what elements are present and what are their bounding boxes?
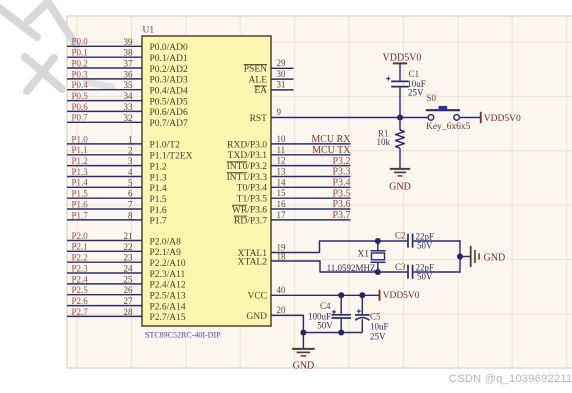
wire net P2.3 / pin 24	[67, 272, 142, 274]
svg-text:38: 38	[124, 48, 134, 58]
svg-text:P1.6: P1.6	[150, 206, 167, 216]
wire net P3.7 / pin 17	[271, 219, 351, 221]
svg-text:P1.7: P1.7	[150, 217, 167, 227]
svg-text:P0.7/AD7: P0.7/AD7	[150, 119, 189, 129]
svg-text:P0.3: P0.3	[72, 69, 89, 79]
svg-text:9: 9	[277, 107, 282, 117]
svg-text:6: 6	[128, 189, 133, 199]
switch S0 key	[428, 115, 434, 121]
wire net P0.4 / pin 35	[67, 89, 142, 91]
wire net P2.4 / pin 25	[67, 283, 142, 285]
wire C5 to bottom rail	[361, 319, 363, 332]
svg-text:WR/P3.6: WR/P3.6	[232, 205, 267, 215]
wire XTAL2 pin 18 to bottom rail	[271, 261, 407, 272]
svg-text:INT1/P3.3: INT1/P3.3	[227, 173, 268, 183]
svg-text:P2.4/A12: P2.4/A12	[150, 281, 186, 291]
svg-text:U1: U1	[143, 26, 155, 36]
svg-text:P1.0/T2: P1.0/T2	[150, 141, 181, 151]
svg-text:RXD/P3.0: RXD/P3.0	[227, 140, 267, 150]
svg-text:P2.1: P2.1	[72, 242, 88, 252]
svg-text:P0.0: P0.0	[72, 37, 89, 47]
svg-text:10: 10	[277, 134, 287, 144]
svg-text:X1: X1	[357, 249, 369, 259]
wire net P1.3 / pin 4	[67, 176, 142, 178]
svg-text:P3.4: P3.4	[332, 178, 350, 189]
svg-text:50V: 50V	[317, 321, 333, 331]
svg-text:MCU TX: MCU TX	[312, 145, 351, 156]
svg-text:34: 34	[124, 91, 134, 101]
svg-text:P1.5: P1.5	[72, 189, 89, 199]
wire C4 to bottom rail	[340, 318, 342, 333]
svg-text:P1.4: P1.4	[150, 184, 167, 194]
resistor R1	[396, 130, 405, 148]
svg-text:P1.6: P1.6	[72, 199, 89, 209]
svg-text:GND: GND	[484, 252, 506, 263]
svg-text:CSDN @q_1039692211: CSDN @q_1039692211	[449, 373, 572, 385]
wire net P0.2 / pin 37	[67, 67, 142, 69]
svg-text:P0.5: P0.5	[72, 91, 89, 101]
wire node to R1	[399, 118, 401, 131]
svg-text:RD/P3.7: RD/P3.7	[234, 216, 267, 226]
svg-text:P2.1/A9: P2.1/A9	[150, 248, 182, 258]
svg-text:P0.3/AD3: P0.3/AD3	[150, 76, 189, 86]
wire net P0.6 / pin 33	[67, 110, 142, 112]
wire net P0.7 / pin 32	[67, 121, 142, 123]
wire net P2.5 / pin 26	[67, 294, 142, 296]
svg-text:GND: GND	[246, 312, 267, 322]
svg-text:P0.6/AD6: P0.6/AD6	[150, 108, 189, 118]
wire net MCU RX / pin 10	[271, 143, 351, 145]
svg-text:INT0/P3.2: INT0/P3.2	[227, 162, 268, 172]
svg-text:P2.2/A10: P2.2/A10	[150, 259, 186, 269]
svg-text:P0.4/AD4: P0.4/AD4	[150, 87, 189, 97]
node RST junction	[397, 115, 403, 121]
wire net MCU TX / pin 11	[271, 154, 351, 156]
svg-text:RST: RST	[250, 114, 268, 124]
svg-text:P1.3: P1.3	[72, 167, 89, 177]
svg-text:P2.4: P2.4	[72, 274, 89, 284]
wire net P1.0 / pin 1	[67, 143, 142, 145]
wire net P0.5 / pin 34	[67, 100, 142, 102]
node crystal bottom junction	[375, 269, 381, 275]
svg-text:30: 30	[277, 69, 287, 79]
svg-text:35: 35	[124, 80, 134, 90]
svg-text:C3: C3	[395, 262, 406, 272]
svg-text:13: 13	[277, 167, 287, 177]
port VDD5V0 (VCC)	[379, 290, 381, 301]
node crystal gnd junction	[457, 254, 463, 260]
svg-text:7: 7	[128, 200, 133, 210]
svg-text:P2.2: P2.2	[72, 253, 88, 263]
svg-text:P2.3: P2.3	[72, 263, 89, 273]
svg-text:8: 8	[128, 210, 133, 220]
wire net P1.6 / pin 7	[67, 208, 142, 210]
svg-text:37: 37	[124, 59, 134, 69]
svg-text:22: 22	[124, 242, 133, 252]
svg-text:16: 16	[277, 199, 287, 209]
node VCC-C4 junction	[338, 292, 344, 298]
svg-text:26: 26	[124, 285, 134, 295]
svg-text:P1.5: P1.5	[150, 195, 167, 205]
svg-text:T1/P3.5: T1/P3.5	[237, 195, 268, 205]
wire net P0.0 / pin 39	[67, 45, 142, 47]
svg-text:C2: C2	[395, 231, 406, 241]
wire net P3.5 / pin 15	[271, 197, 351, 199]
wire C2 right to vertical	[413, 240, 460, 242]
wire net P3.6 / pin 16	[271, 208, 351, 210]
svg-text:P1.7: P1.7	[72, 210, 89, 220]
svg-text:T0/P3.4: T0/P3.4	[237, 184, 268, 194]
node gnd rail junction	[300, 330, 306, 336]
svg-text:10k: 10k	[377, 137, 391, 147]
pin 30 ALE stub wire	[271, 78, 294, 80]
pin 29 PSEN stub wire	[271, 67, 294, 69]
svg-text:14: 14	[277, 177, 287, 187]
svg-text:24: 24	[124, 264, 134, 274]
svg-text:P0.2/AD2: P0.2/AD2	[150, 65, 189, 75]
svg-text:12: 12	[277, 156, 286, 166]
svg-text:P0.1/AD1: P0.1/AD1	[150, 54, 189, 64]
svg-text:TXD/P3.1: TXD/P3.1	[228, 151, 268, 161]
wire net P3.3 / pin 13	[271, 176, 351, 178]
svg-text:VDD5V0: VDD5V0	[484, 114, 521, 124]
svg-text:P1.0: P1.0	[72, 134, 89, 144]
svg-text:P2.7: P2.7	[72, 307, 89, 317]
svg-text:P0.7: P0.7	[72, 113, 89, 123]
svg-text:P1.4: P1.4	[72, 178, 89, 188]
svg-text:36: 36	[124, 69, 134, 79]
svg-text:28: 28	[124, 307, 134, 317]
svg-text:2: 2	[128, 145, 133, 155]
ground below R1	[390, 168, 410, 170]
wire GND pin 20 down	[271, 315, 303, 348]
svg-text:P3.2: P3.2	[332, 156, 350, 167]
svg-text:P2.5: P2.5	[72, 285, 89, 295]
svg-text:P0.6: P0.6	[72, 102, 89, 112]
plus mark C4	[332, 311, 336, 313]
svg-text:32: 32	[124, 113, 133, 123]
port VDD5V0 (key)	[480, 112, 482, 123]
svg-text:MCU RX: MCU RX	[311, 134, 351, 145]
capacitor C4 (polarized)	[332, 314, 352, 316]
svg-text:P1.3: P1.3	[150, 173, 167, 183]
svg-text:25V: 25V	[408, 88, 424, 98]
svg-text:3: 3	[128, 156, 133, 166]
svg-text:P1.1: P1.1	[72, 145, 88, 155]
svg-text:39: 39	[124, 37, 134, 47]
wire to sideways ground	[460, 256, 470, 258]
wire VCC pin 40 to port	[271, 294, 379, 296]
svg-text:40: 40	[277, 285, 287, 295]
svg-text:33: 33	[124, 102, 134, 112]
wire C1 to RST node	[399, 87, 401, 118]
svg-text:GND: GND	[389, 182, 411, 193]
wire net P2.2 / pin 23	[67, 261, 142, 263]
wire net P2.6 / pin 27	[67, 305, 142, 307]
wire net P3.4 / pin 14	[271, 186, 351, 188]
svg-text:29: 29	[277, 58, 287, 68]
wire net P1.5 / pin 6	[67, 197, 142, 199]
svg-text:XTAL2: XTAL2	[238, 257, 268, 267]
svg-text:23: 23	[124, 253, 134, 263]
wire net P2.0 / pin 21	[67, 240, 142, 242]
svg-text:ALE: ALE	[249, 75, 268, 85]
svg-text:P2.7/A15: P2.7/A15	[150, 313, 186, 323]
svg-text:PSEN: PSEN	[244, 65, 267, 75]
wire VDD5V0 bar to C1	[399, 63, 401, 80]
svg-text:P1.2: P1.2	[150, 162, 167, 172]
svg-text:11.0592MHZ: 11.0592MHZ	[327, 263, 376, 273]
wire XTAL1 pin 19 to top rail	[271, 241, 407, 253]
svg-text:P2.6: P2.6	[72, 296, 89, 306]
wire net P2.7 / pin 28	[67, 315, 142, 317]
node gnd-C4 junction	[338, 330, 344, 336]
wire bottom rail	[303, 332, 362, 334]
svg-text:P3.7: P3.7	[332, 210, 350, 221]
crystal X1	[377, 241, 379, 250]
svg-text:P0.5/AD5: P0.5/AD5	[150, 97, 189, 107]
svg-text:P3.3: P3.3	[332, 167, 350, 178]
svg-text:S0: S0	[427, 93, 437, 103]
wire R1 to ground	[399, 148, 401, 168]
wire C3 right to vertical	[413, 271, 460, 273]
svg-text:P3.5: P3.5	[332, 188, 350, 199]
svg-text:P1.2: P1.2	[72, 156, 88, 166]
node VCC-C5 junction	[359, 292, 365, 298]
svg-text:10uF: 10uF	[370, 322, 389, 332]
ground below pin 20	[292, 348, 315, 350]
svg-text:P0.4: P0.4	[72, 80, 89, 90]
svg-text:P2.6/A14: P2.6/A14	[150, 302, 186, 312]
wire net P2.1 / pin 22	[67, 250, 142, 252]
wire VCC rail to C5	[361, 295, 363, 314]
svg-text:50V: 50V	[417, 271, 433, 281]
svg-text:17: 17	[277, 210, 287, 220]
svg-text:STC89C52RC-40I-DIP: STC89C52RC-40I-DIP	[145, 331, 221, 340]
op: IC body U1 STC89C52RC	[142, 36, 271, 326]
svg-text:Key_6x6x5: Key_6x6x5	[426, 122, 471, 132]
svg-text:VDD5V0: VDD5V0	[383, 291, 420, 301]
ground (sideways) for crystal caps	[470, 246, 472, 267]
wire net P3.2 / pin 12	[271, 165, 351, 167]
wire net P1.1 / pin 2	[67, 154, 142, 156]
capacitor C1 (polarized)	[391, 80, 408, 82]
wire right vertical tie	[459, 240, 461, 273]
pin 31 EA stub wire	[271, 89, 294, 91]
svg-text:5: 5	[128, 178, 133, 188]
svg-text:P3.6: P3.6	[332, 199, 350, 210]
wire VCC rail to C4	[340, 295, 342, 314]
svg-text:P2.0: P2.0	[72, 231, 89, 241]
svg-text:P1.1/T2EX: P1.1/T2EX	[150, 152, 193, 162]
wire net P0.3 / pin 36	[67, 78, 142, 80]
svg-text:15: 15	[277, 188, 287, 198]
svg-text:50V: 50V	[417, 240, 433, 250]
svg-text:4: 4	[128, 167, 133, 177]
wire net P1.7 / pin 8	[67, 219, 142, 221]
svg-text:31: 31	[277, 80, 286, 90]
svg-text:P0.0/AD0: P0.0/AD0	[150, 43, 189, 53]
svg-text:EA: EA	[254, 86, 267, 96]
svg-text:25V: 25V	[370, 332, 386, 342]
svg-text:VCC: VCC	[247, 292, 267, 302]
wire net P1.2 / pin 3	[67, 165, 142, 167]
capacitor C5 (polarized)	[355, 314, 370, 316]
wire net P0.1 / pin 38	[67, 56, 142, 58]
wire net P1.4 / pin 5	[67, 186, 142, 188]
svg-text:P0.1: P0.1	[72, 48, 88, 58]
wire switch to port	[460, 117, 480, 119]
capacitor C3	[407, 265, 409, 279]
svg-text:P2.5/A13: P2.5/A13	[150, 292, 186, 302]
node crystal top junction	[375, 238, 381, 244]
svg-text:20: 20	[277, 305, 287, 315]
capacitor C2	[407, 234, 409, 248]
svg-text:P2.3/A11: P2.3/A11	[150, 270, 186, 280]
svg-text:C1: C1	[409, 69, 420, 79]
svg-text:C5: C5	[370, 312, 381, 322]
svg-text:21: 21	[124, 231, 133, 241]
svg-text:27: 27	[124, 296, 134, 306]
wire RST net: pin 9 to key/RC node	[271, 117, 427, 119]
svg-text:C4: C4	[320, 301, 331, 311]
svg-text:GND: GND	[293, 360, 315, 371]
svg-text:25: 25	[124, 274, 134, 284]
svg-text:P0.2: P0.2	[72, 58, 88, 68]
svg-text:11: 11	[277, 145, 286, 155]
svg-text:P2.0/A8: P2.0/A8	[150, 237, 182, 247]
svg-text:VDD5V0: VDD5V0	[383, 53, 422, 64]
plus mark C5	[357, 310, 361, 312]
svg-text:1: 1	[128, 134, 133, 144]
